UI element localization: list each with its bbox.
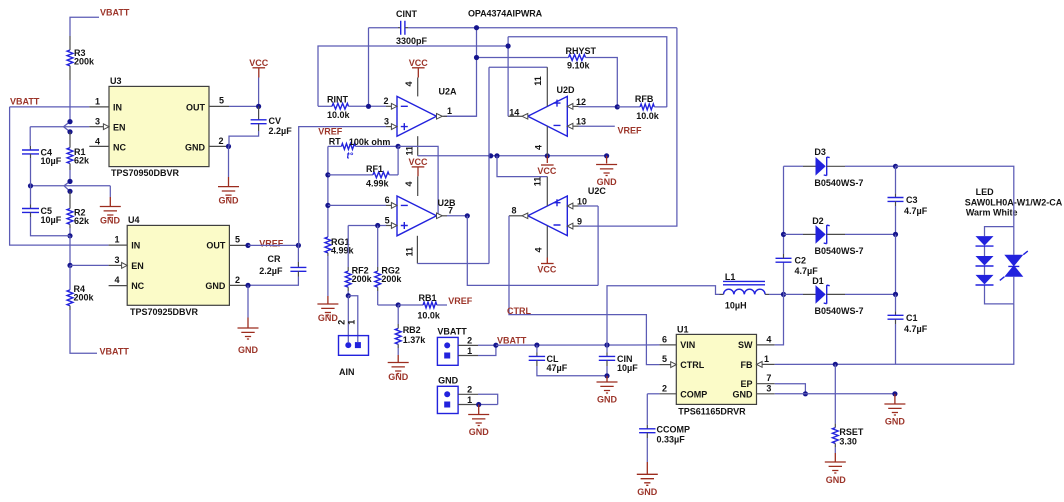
power VCC (U3 out) xyxy=(249,58,269,78)
svg-text:VBATT: VBATT xyxy=(10,97,40,107)
wire C4 to node xyxy=(30,158,32,186)
label CINT 3300pF xyxy=(396,9,428,46)
wire FB net xyxy=(775,362,896,367)
svg-text:GND: GND xyxy=(885,417,906,427)
resistor RSET 3.30 xyxy=(832,364,864,447)
capacitor C3 4.7uF xyxy=(888,164,928,235)
svg-text:GND: GND xyxy=(469,427,490,437)
svg-text:1: 1 xyxy=(95,96,100,106)
svg-text:200k: 200k xyxy=(74,57,95,67)
diode D3 B0540WS-7 xyxy=(784,147,896,188)
capacitor CINT with wire xyxy=(369,21,677,35)
svg-text:RF1: RF1 xyxy=(366,164,383,174)
svg-text:4: 4 xyxy=(534,247,544,252)
svg-text:RT: RT xyxy=(329,137,341,147)
resistor R3 200k xyxy=(67,36,95,80)
wire EP to GND net xyxy=(775,384,808,397)
svg-text:B0540WS-7: B0540WS-7 xyxy=(814,178,863,188)
wire EN node to R4 xyxy=(69,265,71,290)
svg-text:5: 5 xyxy=(662,354,667,364)
svg-text:RINT: RINT xyxy=(327,94,348,104)
svg-text:4: 4 xyxy=(404,181,414,186)
svg-text:RSET: RSET xyxy=(839,427,864,437)
ground RG1 GND xyxy=(317,256,338,323)
svg-text:11: 11 xyxy=(532,177,542,187)
svg-text:1: 1 xyxy=(115,235,120,245)
resistor R1 62k xyxy=(67,132,90,170)
net label VREF (U2D) xyxy=(618,126,643,136)
svg-text:U2B: U2B xyxy=(438,198,457,208)
wire R4 to VBATT label xyxy=(70,310,97,353)
wire AIN pins xyxy=(336,296,358,342)
wire U1 GND net xyxy=(775,391,898,396)
svg-text:CR: CR xyxy=(268,254,281,264)
wire GND conn pin2 xyxy=(458,394,498,404)
wire VBATT to U1 VIN xyxy=(496,342,660,347)
svg-text:RHYST: RHYST xyxy=(566,46,597,56)
resistor RB1 10.0k xyxy=(398,293,447,320)
LED string D4 (3x LED + TVS) xyxy=(976,227,1028,304)
svg-text:VREF: VREF xyxy=(618,126,643,136)
svg-text:VREF: VREF xyxy=(259,238,284,248)
capacitor CIN 10uF xyxy=(599,345,638,378)
svg-text:TPS70925DBVR: TPS70925DBVR xyxy=(130,307,199,317)
svg-text:GND: GND xyxy=(238,345,259,355)
wire U2D + input xyxy=(579,104,620,109)
svg-text:100k ohm: 100k ohm xyxy=(349,137,391,147)
wire VBATT rail down to U4 IN xyxy=(10,107,109,245)
node RT-RF1 junction xyxy=(396,144,401,149)
wire VREF rail xyxy=(325,146,330,237)
svg-text:D1: D1 xyxy=(812,276,824,286)
net label VBATT (mid) xyxy=(497,335,527,345)
svg-text:CTRL: CTRL xyxy=(680,360,704,370)
svg-text:1: 1 xyxy=(447,106,452,116)
svg-text:VBATT: VBATT xyxy=(437,327,467,337)
svg-text:OPA4374AIPWRA: OPA4374AIPWRA xyxy=(468,9,543,19)
svg-text:COMP: COMP xyxy=(680,389,707,399)
resistor RINT 10.0k xyxy=(318,94,386,120)
wire U4 EN xyxy=(70,264,109,266)
svg-text:VCC: VCC xyxy=(408,157,428,167)
svg-text:VCC: VCC xyxy=(537,265,557,275)
wire op-amp supply rail xyxy=(418,153,610,158)
wire VIN to L1 xyxy=(607,286,720,345)
wire node to C5 xyxy=(30,186,32,209)
svg-text:10µH: 10µH xyxy=(725,301,747,311)
op-amp U2B xyxy=(385,157,456,264)
wire LED cathode to FB xyxy=(896,304,1014,364)
net label VBATT (bottom) xyxy=(100,347,130,357)
wire L1 to SW node xyxy=(769,292,786,297)
svg-text:U1: U1 xyxy=(677,324,689,334)
svg-text:200k: 200k xyxy=(352,274,373,284)
capacitor C1 4.7uF xyxy=(888,294,928,364)
wire SW riser xyxy=(775,294,784,345)
wire U2B output node xyxy=(447,213,470,218)
resistor RFB 10.0k xyxy=(617,94,667,121)
resistor RG2 200k xyxy=(375,226,403,306)
svg-text:CINT: CINT xyxy=(396,9,417,19)
wire EN to C4 xyxy=(29,127,31,150)
wire VBATT conn pin1 xyxy=(458,343,498,356)
wire R1 to divider node xyxy=(69,170,71,181)
diode D1 B0540WS-7 xyxy=(784,276,896,316)
svg-text:OUT: OUT xyxy=(186,102,206,112)
svg-text:2: 2 xyxy=(384,96,389,106)
net label VBATT (left) xyxy=(10,97,40,107)
wire CV to GND node xyxy=(229,131,259,146)
svg-text:TPS70950DBVR: TPS70950DBVR xyxy=(111,168,180,178)
wire U1 COMP to CCOMP xyxy=(647,394,659,429)
wire GND conn pin1 xyxy=(458,402,498,407)
svg-text:13: 13 xyxy=(576,117,586,127)
svg-text:GND: GND xyxy=(205,281,226,291)
wire U2C - input xyxy=(579,225,678,227)
svg-text:EP: EP xyxy=(740,379,752,389)
label LED SAW0LH0A-W1/W2-CA Warm White xyxy=(965,187,1063,217)
svg-text:1: 1 xyxy=(467,395,472,405)
wire hysteresis feedback right xyxy=(676,28,678,226)
ground CCOMP GND xyxy=(637,438,658,497)
wire VBATT conn pin2 xyxy=(458,344,496,346)
IC U4 TPS70925DBVR xyxy=(109,215,248,317)
svg-text:2: 2 xyxy=(235,275,240,285)
wire anode column xyxy=(781,166,786,237)
op-amp U2A xyxy=(384,58,458,156)
resistor R4 200k xyxy=(67,284,94,310)
svg-text:GND: GND xyxy=(100,215,121,225)
resistor RB2 1.37k xyxy=(395,305,426,348)
resistor RG1 4.99k xyxy=(325,237,355,256)
capacitor C4 10uF xyxy=(22,147,62,166)
ground RB2 GND xyxy=(388,348,409,382)
wire U2C + stub xyxy=(579,205,599,207)
svg-text:GND: GND xyxy=(438,376,459,386)
resistor RF2 200k xyxy=(345,226,372,296)
svg-text:7: 7 xyxy=(448,205,453,215)
wire U4 GND down xyxy=(247,285,249,328)
IC U1 TPS61165DRVR xyxy=(659,324,774,416)
wire U2A output xyxy=(447,115,477,117)
svg-text:GND: GND xyxy=(597,395,618,405)
wire CINT left to U2A inverting input xyxy=(368,28,370,107)
wire RFB feedback top xyxy=(508,37,667,107)
svg-text:RB2: RB2 xyxy=(403,325,421,335)
svg-text:IN: IN xyxy=(131,241,140,251)
svg-text:3.30: 3.30 xyxy=(839,437,857,447)
wire RT node to U2B output xyxy=(398,146,438,215)
svg-text:1.37k: 1.37k xyxy=(403,335,427,345)
svg-text:U2D: U2D xyxy=(557,85,576,95)
thermistor RT 100k xyxy=(328,137,398,161)
inductor L1 10uH xyxy=(720,272,770,311)
svg-text:C1: C1 xyxy=(906,313,918,323)
ground U1 GND xyxy=(884,394,905,427)
svg-text:C2: C2 xyxy=(795,255,807,265)
connector AIN xyxy=(339,336,369,377)
svg-text:3300pF: 3300pF xyxy=(396,36,428,46)
svg-text:10.0k: 10.0k xyxy=(636,111,660,121)
svg-text:2.2µF: 2.2µF xyxy=(259,266,283,276)
svg-text:D2: D2 xyxy=(812,216,824,226)
ground CIN GND xyxy=(597,376,618,405)
svg-text:62k: 62k xyxy=(74,155,90,165)
svg-text:5: 5 xyxy=(235,235,240,245)
svg-text:4.99k: 4.99k xyxy=(366,178,390,188)
svg-text:VBATT: VBATT xyxy=(100,8,130,18)
wire U2D out to RINT xyxy=(318,46,508,106)
svg-text:RB1: RB1 xyxy=(419,293,437,303)
svg-text:NC: NC xyxy=(113,142,126,152)
capacitor CCOMP 0.33uF xyxy=(639,424,690,444)
resistor RHYST 9.10k xyxy=(477,46,618,107)
ground U3 GND pin xyxy=(218,144,239,206)
net label VREF (U2A) xyxy=(318,127,343,137)
svg-text:VCC: VCC xyxy=(537,166,557,176)
svg-text:2: 2 xyxy=(219,136,224,146)
svg-text:4: 4 xyxy=(766,334,771,344)
capacitor CV 2.2uF xyxy=(251,106,293,136)
svg-text:C3: C3 xyxy=(906,195,918,205)
op-amp U2D xyxy=(508,67,586,156)
svg-text:2: 2 xyxy=(662,383,667,393)
svg-text:GND: GND xyxy=(733,389,754,399)
wire U2D pin11 xyxy=(489,66,547,68)
svg-text:D3: D3 xyxy=(814,147,826,157)
svg-text:1: 1 xyxy=(346,320,356,325)
svg-text:VCC: VCC xyxy=(249,58,269,68)
svg-text:6: 6 xyxy=(385,195,390,205)
svg-text:Warm White: Warm White xyxy=(966,207,1018,217)
resistor RF1 4.99k xyxy=(328,164,398,189)
svg-text:1: 1 xyxy=(764,354,769,364)
svg-text:10µF: 10µF xyxy=(41,215,62,225)
wire U2D output riser xyxy=(506,37,511,117)
svg-text:2: 2 xyxy=(467,385,472,395)
svg-text:NC: NC xyxy=(131,281,144,291)
svg-text:4: 4 xyxy=(404,81,414,86)
capacitor CL 47uF xyxy=(529,345,607,376)
wire to U4 EN node xyxy=(67,236,72,268)
svg-text:GND: GND xyxy=(826,475,847,485)
svg-text:4: 4 xyxy=(95,136,100,146)
svg-text:VREF: VREF xyxy=(318,127,343,137)
svg-text:4.99k: 4.99k xyxy=(331,246,355,256)
svg-text:11: 11 xyxy=(404,146,414,156)
svg-text:EN: EN xyxy=(113,122,126,132)
net label CTRL xyxy=(507,306,531,316)
svg-text:7: 7 xyxy=(766,373,771,383)
wire U2B pin11 to GND rail xyxy=(417,263,489,265)
svg-text:U3: U3 xyxy=(110,76,122,86)
svg-text:3: 3 xyxy=(384,116,389,126)
wire U2B - input xyxy=(328,204,386,206)
connector GND xyxy=(437,376,472,414)
net label VREF (RB1) xyxy=(448,296,473,306)
svg-text:t°: t° xyxy=(347,150,354,160)
wire rail riser (U2D pin11 / U2B pin11) xyxy=(488,67,490,263)
wire CR to U4 GND node xyxy=(245,277,298,289)
svg-text:14: 14 xyxy=(509,108,519,118)
wire R3 to EN node xyxy=(69,80,71,122)
capacitor C2 4.7uF xyxy=(776,234,819,294)
diode D2 B0540WS-7 xyxy=(784,216,896,256)
svg-text:CCOMP: CCOMP xyxy=(657,424,691,434)
svg-text:FB: FB xyxy=(741,360,753,370)
svg-text:OUT: OUT xyxy=(206,241,226,251)
svg-text:B0540WS-7: B0540WS-7 xyxy=(815,306,864,316)
wire D3 to LED anode xyxy=(896,166,1014,226)
svg-text:10µF: 10µF xyxy=(41,156,62,166)
svg-text:4.7µF: 4.7µF xyxy=(904,206,928,216)
svg-text:U4: U4 xyxy=(128,215,140,225)
svg-text:EN: EN xyxy=(131,261,144,271)
svg-text:10µF: 10µF xyxy=(617,363,638,373)
wire CTRL net xyxy=(509,216,659,365)
power VCC (rail) xyxy=(537,156,557,176)
svg-text:RFB: RFB xyxy=(635,94,654,104)
wire riser to U2C pin10 xyxy=(597,206,599,285)
wire U2D - input xyxy=(579,125,615,127)
svg-text:IN: IN xyxy=(113,102,122,112)
svg-text:VBATT: VBATT xyxy=(100,347,130,357)
svg-text:CV: CV xyxy=(269,116,282,126)
svg-text:L1: L1 xyxy=(725,272,736,282)
wire U2B out to U2C + xyxy=(467,216,598,286)
svg-text:11: 11 xyxy=(533,76,543,86)
svg-text:B0540WS-7: B0540WS-7 xyxy=(815,246,864,256)
wire U2A + input to VREF node xyxy=(299,127,386,246)
svg-text:10: 10 xyxy=(577,196,587,206)
svg-text:LED: LED xyxy=(976,187,995,197)
svg-text:GND: GND xyxy=(637,487,658,497)
power VCC (U2C) xyxy=(537,258,557,275)
wire VCC to OUT xyxy=(258,78,260,107)
svg-text:200k: 200k xyxy=(381,274,402,284)
IC U3 TPS70950DBVR xyxy=(89,76,229,178)
ground rail GND xyxy=(596,156,617,187)
svg-text:U2A: U2A xyxy=(439,86,458,96)
svg-text:GND: GND xyxy=(388,372,409,382)
svg-text:11: 11 xyxy=(404,247,414,257)
svg-text:1: 1 xyxy=(467,346,472,356)
wire VBATT to U3 IN xyxy=(10,106,90,108)
op-amp U2C xyxy=(509,177,606,258)
wire RG2 to RB node xyxy=(378,302,401,307)
svg-text:SW: SW xyxy=(738,340,753,350)
svg-text:U2C: U2C xyxy=(588,186,607,196)
svg-text:47µF: 47µF xyxy=(547,363,568,373)
svg-text:12: 12 xyxy=(576,97,586,107)
svg-text:10.0k: 10.0k xyxy=(327,110,351,120)
capacitor CR 2.2uF xyxy=(259,245,306,276)
wire U2B + input xyxy=(348,223,386,228)
svg-text:3: 3 xyxy=(766,383,771,393)
svg-text:0.33µF: 0.33µF xyxy=(657,434,686,444)
net label VBATT (top) xyxy=(100,8,130,18)
wire U3 EN net with junctions xyxy=(30,119,89,134)
svg-text:AIN: AIN xyxy=(339,367,355,377)
wire C5 to R2 node xyxy=(31,217,71,236)
svg-text:10.0k: 10.0k xyxy=(417,310,441,320)
svg-text:4: 4 xyxy=(115,275,120,285)
ground divider GND xyxy=(100,186,121,226)
svg-text:GND: GND xyxy=(185,142,206,152)
ground RSET GND xyxy=(825,447,847,485)
node RF2-AIN junction xyxy=(346,293,351,298)
wire U4 OUT to VREF node xyxy=(248,243,301,248)
svg-text:3: 3 xyxy=(115,255,120,265)
wire divider node to GND tap xyxy=(28,179,110,194)
svg-text:4: 4 xyxy=(534,145,544,150)
svg-text:2: 2 xyxy=(467,336,472,346)
svg-text:VCC: VCC xyxy=(409,58,429,68)
svg-text:3: 3 xyxy=(95,116,100,126)
ground connector GND xyxy=(468,405,489,438)
wire U2A output node xyxy=(444,25,480,116)
svg-text:6: 6 xyxy=(662,334,667,344)
net label VREF (U4 out) xyxy=(245,238,283,248)
svg-text:VREF: VREF xyxy=(448,296,473,306)
wire R2 bottom node xyxy=(67,228,72,238)
svg-text:VBATT: VBATT xyxy=(497,335,527,345)
ground U4 GND xyxy=(238,328,259,355)
svg-text:4.7µF: 4.7µF xyxy=(795,266,819,276)
svg-text:9.10k: 9.10k xyxy=(567,61,591,71)
svg-text:62k: 62k xyxy=(74,216,90,226)
svg-text:TPS61165DRVR: TPS61165DRVR xyxy=(678,406,746,416)
svg-text:2: 2 xyxy=(336,320,346,325)
svg-text:CTRL: CTRL xyxy=(507,306,531,316)
wire VBATT top to R3 xyxy=(70,17,99,36)
svg-text:5: 5 xyxy=(385,215,390,225)
svg-text:8: 8 xyxy=(512,206,517,216)
svg-text:2.2µF: 2.2µF xyxy=(269,126,293,136)
wire U2C pin11 xyxy=(497,156,547,177)
svg-text:GND: GND xyxy=(219,196,240,206)
wire U3 OUT node xyxy=(229,104,261,109)
wire RF1 riser xyxy=(397,146,399,175)
svg-text:9: 9 xyxy=(577,216,582,226)
svg-text:VIN: VIN xyxy=(680,340,695,350)
capacitor C5 10uF xyxy=(22,206,62,225)
svg-text:200k: 200k xyxy=(74,292,95,302)
connector VBATT xyxy=(437,327,472,366)
label OPA4374AIPWRA xyxy=(468,9,543,19)
resistor R2 62k xyxy=(67,191,90,228)
wire cathode column xyxy=(893,232,898,297)
svg-text:4.7µF: 4.7µF xyxy=(904,324,928,334)
svg-text:5: 5 xyxy=(219,95,224,105)
